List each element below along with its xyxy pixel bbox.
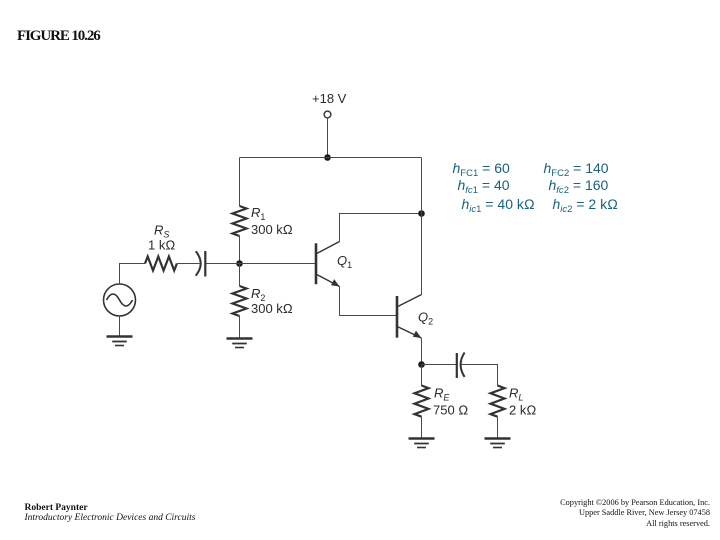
wire supply terminal to top rail [327, 118, 329, 158]
svg-text:300 kΩ: 300 kΩ [251, 301, 293, 316]
wire Q1 collector to right rail [340, 214, 422, 242]
svg-text:1 kΩ: 1 kΩ [148, 238, 175, 253]
wire RS to capacitor [177, 263, 200, 265]
wire RE to ground [421, 417, 423, 439]
node collector junction [418, 210, 425, 217]
capacitor C1 input coupling [196, 251, 206, 277]
svg-text:RL: RL [509, 386, 523, 403]
wire C2 to RL [461, 365, 498, 386]
svg-text:750 Ω: 750 Ω [433, 403, 468, 418]
wire top rail [240, 157, 422, 159]
footer left author [25, 503, 196, 524]
wire Q1 emitter to Q2 base [340, 287, 397, 316]
figure title [17, 28, 100, 45]
h-parameter labels hFC1 [453, 160, 510, 176]
svg-text:2 kΩ: 2 kΩ [509, 403, 536, 418]
wire output node to C2 [422, 364, 457, 366]
h-parameter labels hic1 [462, 196, 535, 212]
wire Q2 emitter to output node [421, 338, 423, 365]
capacitor C2 output coupling [457, 353, 465, 379]
wire R2 to ground [239, 316, 241, 339]
wire source to ground [119, 316, 121, 337]
wire R1 to base node [239, 236, 241, 264]
wire right rail [421, 158, 423, 295]
transistor Q2 [397, 295, 433, 339]
ground under source [107, 337, 133, 346]
transistor Q1 [316, 242, 352, 287]
node junction on top rail [324, 154, 331, 161]
h-parameter labels hFC2 [544, 160, 609, 176]
svg-text:Q2: Q2 [418, 310, 433, 327]
svg-text:Q1: Q1 [337, 253, 352, 270]
ground under RL [485, 439, 511, 448]
node output junction [418, 361, 425, 368]
node +18 V supply terminal [312, 91, 347, 118]
ground under R2 [227, 339, 253, 348]
wire left rail to R1 [239, 158, 241, 207]
h-parameter labels hfc2 [549, 177, 609, 193]
wire RL to ground [497, 417, 499, 439]
resistor RL [491, 386, 537, 418]
svg-text:R1: R1 [251, 205, 265, 222]
svg-text:300 kΩ: 300 kΩ [251, 222, 293, 237]
ground under RE [409, 439, 435, 448]
resistor RS [145, 223, 177, 271]
svg-text:+18 V: +18 V [312, 91, 347, 106]
resistor RE [415, 365, 469, 418]
h-parameter labels hic2 [553, 196, 618, 212]
source VS (AC) [104, 284, 136, 316]
resistor R1 [233, 205, 293, 237]
h-parameter labels hfc1 [458, 177, 510, 193]
node base junction [236, 260, 243, 267]
svg-text:RE: RE [434, 386, 450, 403]
wire input node to Q1 base [206, 263, 315, 265]
footer right copyright [560, 498, 710, 529]
wire source to RS [120, 264, 146, 285]
resistor R2 [233, 264, 293, 317]
